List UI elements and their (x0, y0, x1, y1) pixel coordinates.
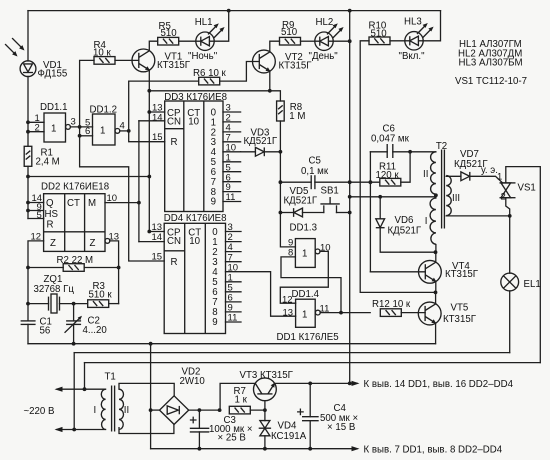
svg-text:DD1.2: DD1.2 (90, 105, 117, 116)
gate DD1.4 (282, 289, 329, 327)
svg-text:1: 1 (497, 172, 502, 183)
wire AC input bottom with arrow (57, 429, 106, 431)
node junction dot top rail x349.7 (348, 9, 352, 13)
svg-text:9: 9 (212, 317, 217, 328)
wire VT3 collector left and down (220, 383, 255, 410)
wire T1 secondary top to bridge (119, 383, 174, 396)
svg-text:КТ315Г: КТ315Г (445, 269, 479, 280)
counter DD4 К176ИЕ8 (152, 213, 227, 334)
svg-text:VT5: VT5 (451, 303, 469, 314)
resistor R12 10к (372, 299, 411, 316)
svg-text:6: 6 (85, 126, 90, 137)
svg-text:CN: CN (167, 116, 181, 127)
resistor R8 1М (277, 101, 306, 122)
svg-text:10: 10 (188, 116, 199, 127)
svg-text:0,1 мк: 0,1 мк (301, 166, 329, 177)
wire T2 winding III bottom to cathode line (446, 215, 510, 217)
svg-text:1: 1 (100, 126, 105, 137)
wire C5 left to R8 line (280, 181, 311, 183)
svg-text:2,4 М: 2,4 М (36, 157, 60, 168)
wire R2 line (28, 267, 63, 269)
wire DD1.1-out node up to R4 (80, 60, 94, 127)
wire SB1 right to +9V rail (337, 212, 350, 214)
svg-text:9: 9 (211, 197, 216, 208)
svg-text:R: R (171, 257, 178, 268)
svg-text:EL1: EL1 (524, 279, 541, 290)
wire C6 line (370, 151, 387, 153)
pushbutton SB1 (320, 186, 339, 213)
svg-text:DD1 К176ЛЕ5: DD1 К176ЛЕ5 (277, 332, 339, 343)
svg-text:КТ315Г: КТ315Г (443, 314, 477, 325)
wire CP stub to DD3 pin13 (149, 111, 164, 113)
svg-text:15: 15 (152, 252, 163, 263)
svg-text:14: 14 (152, 112, 163, 123)
svg-text:CT: CT (67, 198, 80, 209)
svg-text:I: I (94, 405, 97, 416)
svg-text:510: 510 (161, 28, 178, 39)
resistor R1 2,4М (24, 146, 60, 167)
svg-text:R12 10 к: R12 10 к (372, 299, 411, 310)
svg-text:2: 2 (501, 192, 506, 203)
svg-text:КТ315Г: КТ315Г (157, 60, 191, 71)
diode VD3 КД521Г (244, 127, 278, 156)
svg-text:56: 56 (40, 326, 51, 337)
capacitor C6 0,047мк (371, 124, 410, 158)
photodiode VD1 ФД155 (6, 39, 68, 80)
wire R5 to HL1 (179, 40, 196, 42)
svg-text:1: 1 (302, 249, 307, 260)
gate DD1.1 (K176LE5) (35, 102, 76, 142)
capacitor C3 1000мк (190, 410, 253, 449)
svg-text:КД521Г: КД521Г (388, 225, 422, 236)
resistor R7 1к (229, 386, 250, 414)
svg-text:SB1: SB1 (321, 186, 339, 197)
wire VT2 emitter down (269, 71, 271, 91)
diode VD7 КД521Г (454, 149, 488, 181)
node dots R2/R3 column (117, 266, 121, 270)
svg-text:КС191А: КС191А (271, 431, 307, 442)
resistor R4 10к (93, 40, 115, 64)
wire mains line B y352.6 (74, 352, 510, 354)
svg-text:II: II (124, 405, 129, 416)
wire left rail upper (to VD1) (27, 11, 29, 61)
capacitor C5 0,1мк (301, 156, 329, 190)
wire DD4 pin14 stub (139, 241, 164, 243)
trimmer capacitor C2 4...20 (65, 304, 107, 344)
wire VD3 to R8 node (264, 151, 280, 153)
node dots DD1.1 inputs on rail (26, 120, 30, 124)
svg-text:11: 11 (226, 192, 236, 203)
crystal ZQ1 32768Гц (34, 274, 75, 313)
wire DD2 pin10 stub (105, 202, 139, 204)
transformer T1 (94, 372, 130, 432)
wire common rail A y343.7 (28, 343, 436, 345)
capacitor C1 56 (21, 316, 52, 336)
wire C5 right to R11 (through rail taps) (315, 181, 380, 183)
svg-text:10: 10 (189, 236, 200, 247)
wire R6 to VT2 base (220, 62, 259, 82)
wire HL2 to +9V vertical (333, 40, 350, 42)
wire AC input top with arrow (57, 388, 106, 390)
svg-text:"Ночь": "Ночь" (188, 51, 218, 62)
wire R10 left down to VT4/VT5 junction (360, 41, 435, 293)
LED HL2 "День" (309, 17, 344, 62)
svg-text:HL3 АЛ307БМ: HL3 АЛ307БМ (459, 58, 523, 69)
svg-text:510: 510 (371, 28, 388, 39)
gate DD1.3 (288, 222, 331, 267)
wire VT3 base down to R7 node (264, 401, 266, 410)
wire line B elbow to AC bottom (73, 353, 75, 430)
svg-text:R6 10 к: R6 10 к (193, 68, 227, 79)
svg-text:К выв. 7 DD1, выв. 8 DD2–DD4: К выв. 7 DD1, выв. 8 DD2–DD4 (364, 444, 503, 455)
wire DD3 output stubs (223, 103, 241, 204)
wire R8 bottom down to DD1.3 pin9 (280, 121, 295, 247)
resistor R10 510 (369, 21, 391, 45)
diode VD5 КД521Г (284, 186, 318, 217)
svg-text:КТ315Г: КТ315Г (279, 61, 313, 72)
svg-text:HL3: HL3 (404, 17, 422, 28)
wire R3 right (109, 303, 119, 305)
svg-text:1 М: 1 М (289, 111, 305, 122)
svg-text:DD1.3: DD1.3 (290, 222, 317, 233)
svg-text:4: 4 (120, 121, 125, 132)
wire VS1 anode up and right corner (506, 167, 541, 363)
wire R7 right to VT3 base node (250, 409, 265, 411)
wire VS1 cathode down (506, 198, 510, 274)
svg-text:T1: T1 (105, 372, 116, 383)
svg-text:510 к: 510 к (89, 290, 113, 301)
wire R10 to HL3 (390, 40, 405, 42)
svg-text:HS: HS (45, 209, 59, 220)
svg-text:КД521Г: КД521Г (244, 136, 278, 147)
counter DD3 К176ИЕ8 (152, 92, 227, 212)
svg-text:у. э.: у. э. (481, 165, 498, 176)
counter DD2 К176ИЕ18 (31, 181, 120, 251)
node junction dot top rail x228.7 (227, 9, 231, 13)
svg-text:DD2 К176ИЕ18: DD2 К176ИЕ18 (41, 181, 109, 192)
wire VD7 to VS1 gate (470, 176, 503, 183)
wire CN line DD2 pin10 to DD3/DD4 pin14 (139, 120, 165, 122)
svg-text:13: 13 (283, 307, 294, 318)
svg-text:2: 2 (35, 123, 40, 134)
wire DD1.2-out node down to DD3 R pin15 (129, 131, 165, 142)
wire R9 to HL2 (301, 40, 315, 42)
svg-text:Z: Z (50, 238, 56, 249)
svg-text:32768 Гц: 32768 Гц (34, 284, 75, 295)
svg-text:1: 1 (302, 310, 307, 321)
wire DD3 pin10 stub to VD3 (241, 151, 256, 153)
wire VD6 leads (379, 197, 381, 219)
wire T2 winding III top to VD7 (446, 175, 461, 177)
wire C1 bottom to rail A (27, 324, 29, 343)
svg-text:1: 1 (51, 124, 56, 135)
svg-text:12: 12 (282, 295, 293, 306)
wire mains line C y362.6 (85, 362, 541, 364)
svg-text:ФД155: ФД155 (38, 68, 68, 79)
svg-text:R2 22 М: R2 22 М (57, 255, 94, 266)
wire EL1 bottom to line B (509, 291, 511, 353)
wire R4 to VT1 base (115, 59, 139, 61)
svg-text:DD1.4: DD1.4 (292, 289, 320, 300)
wire line C elbow to AC top (84, 363, 86, 390)
wire DD2 pin stubs 14,9,5 (28, 202, 44, 204)
transistor VT2 КТ315Г (253, 50, 313, 73)
wire DD1.4 out to R12 (320, 312, 370, 314)
wire top supply rail (28, 10, 441, 12)
svg-text:HL2: HL2 (316, 17, 334, 28)
wire DD1.1-out node down to DD4 R pin15 (80, 136, 165, 261)
wire bridge plus line to VT3 (189, 409, 219, 411)
wire DD4 pin10 to DD1.4 pin13 (226, 272, 296, 317)
wire y176.5 from left rail to CP line (28, 176, 149, 178)
svg-text:К выв. 14 DD1, выв. 16 DD2–DD4: К выв. 14 DD1, выв. 16 DD2–DD4 (364, 379, 514, 390)
svg-text:C5: C5 (309, 156, 321, 167)
wire VT4 base (370, 271, 425, 273)
svg-text:120 к: 120 к (376, 170, 400, 181)
svg-text:КД521Г: КД521Г (284, 196, 318, 207)
resistor R3 510к (88, 281, 113, 308)
wire DD2 pin12 to crystal rail (28, 241, 44, 321)
wire HL1 to top rail (214, 11, 229, 42)
wire bridge minus to common rail vertical x150.6 (151, 409, 160, 411)
transistor VT3 КТ315Г (240, 370, 294, 401)
svg-text:R: R (171, 137, 178, 148)
wire top-right corner to HL3 (423, 11, 441, 41)
svg-text:5: 5 (37, 210, 42, 221)
svg-text:× 25 В: × 25 В (218, 433, 246, 444)
node dot rail y176.5 (26, 175, 30, 179)
wire VT1 emitter rail down (CP line) (149, 70, 164, 232)
wire emitter node to R8 (270, 91, 281, 101)
resistor R6 10к (193, 68, 227, 85)
wire VT4 collector/emitter (435, 252, 437, 262)
wire DD1.1 out to DD1.2 inputs (70, 126, 92, 128)
wire left rail R1 to DD2 pin5 (27, 166, 29, 218)
transformer T2 (423, 141, 460, 244)
svg-text:III: III (452, 193, 460, 204)
svg-text:VS1: VS1 (518, 182, 536, 193)
svg-text:VD6: VD6 (395, 215, 414, 226)
wire DD1.3 pin8 loop to DD1.4 output (281, 257, 341, 313)
svg-text:0,047 мк: 0,047 мк (371, 134, 410, 145)
wire emitters tie VT1-VT2 (149, 90, 269, 92)
wire left rail VD1 to R1 (27, 76, 29, 146)
svg-text:Q: Q (46, 198, 54, 209)
triac VS1 (497, 172, 536, 203)
svg-text:HL1: HL1 (195, 17, 213, 28)
resistor R2 22М (57, 255, 94, 271)
LED HL1 "Ночь" (188, 17, 225, 62)
svg-text:DD1.1: DD1.1 (40, 102, 67, 113)
svg-text:"День": "День" (309, 51, 339, 62)
svg-text:× 15 В: × 15 В (327, 422, 355, 433)
wire VT3 emitter +9V output line (275, 382, 358, 384)
diode VD6 КД521Г (376, 215, 422, 236)
wire DD1.3 out to DD1.4 pin12 (280, 251, 328, 303)
wire SB1 line (280, 212, 293, 214)
svg-text:T2: T2 (436, 141, 447, 152)
wire VT2 collector to R9 (270, 41, 280, 52)
gate DD1.2 (85, 105, 125, 146)
bridge rectifier VD2 2W10 (160, 366, 206, 424)
svg-text:15: 15 (152, 132, 163, 143)
svg-text:VT3 КТ315Г: VT3 КТ315Г (240, 370, 294, 381)
resistor R9 510 (280, 20, 301, 45)
svg-text:1 к: 1 к (235, 394, 248, 405)
transistor VT4 КТ315Г (419, 260, 479, 283)
wire DD1.1 input stubs (28, 121, 44, 123)
wire +9V long vertical x349.7 (349, 11, 351, 384)
svg-text:II: II (423, 169, 428, 180)
resistor R5 510 (158, 21, 179, 45)
svg-text:10 к: 10 к (93, 48, 111, 59)
svg-text:VS1 ТС112-10-7: VS1 ТС112-10-7 (455, 76, 527, 87)
svg-text:11: 11 (228, 313, 238, 324)
capacitor C4 500мк (298, 383, 358, 448)
node dots DD2 pins 14,9 on rail (26, 201, 30, 205)
wire DC minus rail D y448.7 (151, 448, 357, 450)
wire R12 to VT5 base (401, 312, 425, 314)
resistor R11 120к (376, 161, 401, 186)
svg-text:I: I (425, 216, 428, 227)
wire T2 winding I bottom to VT4 collector (435, 245, 437, 253)
svg-text:4...20: 4...20 (83, 325, 108, 336)
wire +9V to T2 midpoint (350, 196, 436, 198)
svg-text:R: R (47, 220, 54, 231)
zener VD4 КС191А (259, 410, 307, 449)
wire C6/R11 left side down to VT4 base (369, 152, 371, 272)
svg-text:CN: CN (167, 236, 181, 247)
transistor VT5 КТ315Г (418, 302, 476, 325)
svg-text:DD3 К176ИЕ8: DD3 К176ИЕ8 (164, 92, 227, 103)
svg-text:DD4 К176ИЕ8: DD4 К176ИЕ8 (164, 213, 227, 224)
wire DD1.2-out node up to R6 line (129, 81, 198, 131)
svg-text:2W10: 2W10 (180, 376, 206, 387)
svg-text:M: M (88, 198, 96, 209)
svg-text:3: 3 (71, 117, 76, 128)
lamp EL1 (501, 273, 541, 291)
wire DD1.2 out node (120, 130, 129, 132)
wire T1 secondary bottom to bridge (119, 424, 174, 433)
LED HL3 "Вкл." (399, 17, 434, 62)
wire VT1 collector to R5 (149, 41, 157, 51)
svg-text:Z: Z (90, 238, 96, 249)
wire VT5 collector/emitter (435, 292, 437, 304)
wire DD2 pin13 to R2 right vertical (110, 241, 119, 304)
wire R11 right up to C6 line (401, 152, 410, 182)
svg-text:"Вкл.": "Вкл." (399, 51, 426, 62)
svg-text:~220 В: ~220 В (24, 406, 55, 417)
svg-text:510: 510 (281, 27, 298, 38)
transistor VT1 КТ315Г (132, 49, 191, 72)
wire DD4 output stubs (226, 222, 242, 324)
wire crystal line (28, 303, 49, 305)
